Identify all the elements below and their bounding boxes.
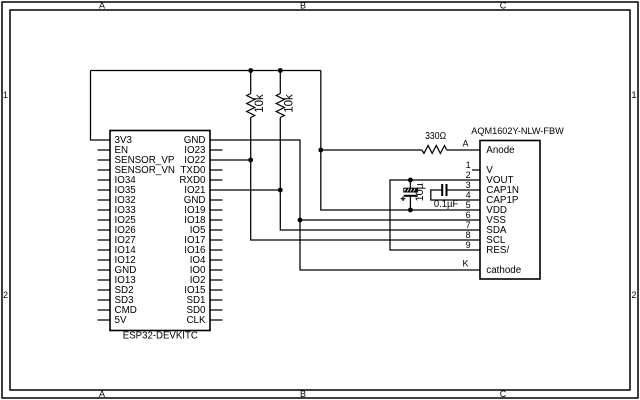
svg-text:Anode: Anode bbox=[486, 145, 515, 156]
svg-text:cathode: cathode bbox=[486, 265, 521, 276]
svg-text:10k: 10k bbox=[254, 94, 266, 113]
svg-text:ESP32-DEVKITC: ESP32-DEVKITC bbox=[123, 331, 198, 342]
svg-text:1: 1 bbox=[3, 90, 8, 100]
wire R1 node to SCL bbox=[251, 160, 480, 240]
svg-text:2: 2 bbox=[466, 170, 471, 180]
junction VOUT/C1 bbox=[408, 178, 413, 183]
wire 3V3 pin to top bus bbox=[91, 71, 111, 141]
svg-text:330Ω: 330Ω bbox=[425, 131, 446, 142]
svg-text:9: 9 bbox=[466, 240, 471, 250]
ESP32 right pin stubs bbox=[210, 150, 223, 320]
svg-text:C: C bbox=[500, 1, 507, 11]
junction bus/R1 bbox=[248, 68, 253, 73]
resistor R2 10k bbox=[276, 71, 295, 191]
IC LCD AQM1602Y-NLW-FBW bbox=[462, 126, 563, 279]
wire IO22 to R1 node bbox=[210, 159, 251, 161]
svg-text:A: A bbox=[99, 389, 105, 399]
junction anode/VDD bbox=[318, 148, 323, 153]
svg-text:B: B bbox=[300, 1, 306, 11]
ESP32 left pin stubs bbox=[98, 150, 111, 320]
wire VOUT to RES/ bbox=[390, 180, 480, 250]
svg-text:2: 2 bbox=[3, 290, 8, 300]
capacitor C2 0.1uF bbox=[431, 184, 480, 210]
junction bus/R2 bbox=[278, 68, 283, 73]
LCD pin 1 stub (V) bbox=[472, 169, 480, 171]
junction IO21/R2 bbox=[278, 188, 283, 193]
IC ESP32-DEVKITC bbox=[110, 131, 210, 342]
resistor R3 330 ohm bbox=[422, 131, 447, 154]
wire VSS node to cathode bbox=[300, 220, 480, 270]
capacitor C1 10u electrolytic bbox=[401, 180, 427, 210]
wire GND to VSS bbox=[210, 140, 480, 220]
wire anode node to VDD bbox=[321, 150, 480, 210]
svg-text:A: A bbox=[462, 139, 468, 149]
svg-text:A: A bbox=[99, 1, 105, 11]
svg-text:K: K bbox=[462, 259, 468, 269]
junction VDD/C1 bbox=[408, 208, 413, 213]
svg-text:10k: 10k bbox=[284, 94, 296, 113]
resistor R1 10k bbox=[247, 71, 266, 161]
wire anode node to R3 bbox=[321, 149, 422, 151]
svg-text:7: 7 bbox=[466, 220, 471, 230]
svg-text:8: 8 bbox=[466, 230, 471, 240]
wire R2 node to SDA bbox=[280, 190, 480, 230]
svg-text:2: 2 bbox=[631, 290, 636, 300]
svg-text:6: 6 bbox=[466, 210, 471, 220]
wire IO21 to R2 node bbox=[210, 189, 280, 191]
svg-text:3: 3 bbox=[466, 180, 471, 190]
svg-text:CLK: CLK bbox=[186, 315, 206, 326]
svg-text:B: B bbox=[300, 389, 306, 399]
svg-text:C: C bbox=[500, 389, 507, 399]
junction IO22/R1 bbox=[248, 158, 253, 163]
svg-text:0.1µF: 0.1µF bbox=[434, 199, 458, 210]
wire 3V3 bus down to anode node bbox=[320, 71, 322, 151]
svg-text:5: 5 bbox=[466, 200, 471, 210]
svg-text:1: 1 bbox=[631, 90, 636, 100]
svg-text:RES/: RES/ bbox=[486, 245, 509, 256]
wire top 3V3 bus bbox=[91, 70, 321, 72]
wire R3 to anode pin bbox=[447, 149, 480, 151]
svg-text:AQM1602Y-NLW-FBW: AQM1602Y-NLW-FBW bbox=[471, 126, 564, 137]
svg-text:5V: 5V bbox=[115, 315, 127, 326]
svg-text:4: 4 bbox=[466, 190, 471, 200]
junction VSS/cathode bbox=[298, 218, 303, 223]
svg-text:10µ: 10µ bbox=[414, 183, 426, 201]
svg-text:1: 1 bbox=[466, 160, 471, 170]
